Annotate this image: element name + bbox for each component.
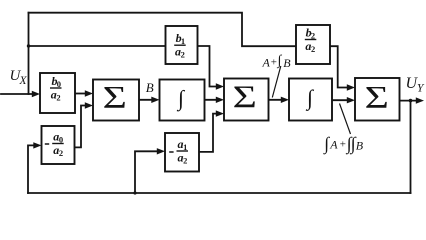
integrator I2 (289, 79, 332, 121)
integrator I1 (160, 80, 205, 121)
node junction U_X branch (27, 44, 30, 47)
node junction U_Y branch (409, 99, 413, 103)
wire b0/a2 output to summer S1 (75, 93, 88, 95)
wire -a0/a2 output to summer S1 (75, 106, 89, 148)
wire b1/a2 output to summer S2 (198, 46, 220, 87)
wire summer S1 to integrator I1 (139, 99, 155, 101)
svg-text:X: X (19, 75, 28, 87)
wire top feedforward to b2/a2 (29, 13, 297, 47)
label fraction -a1/a2 (169, 137, 188, 166)
wire feedback to -a1/a2 (135, 151, 160, 193)
svg-text:∫: ∫ (277, 53, 283, 68)
svg-text:∫: ∫ (323, 133, 330, 154)
wire summer S2 to integrator I2 (269, 99, 285, 101)
wire -a1/a2 output to summer S2 (199, 114, 219, 152)
label sigma S2 (233, 80, 257, 115)
wire integrator I1 to summer S2 (205, 99, 220, 101)
label fraction b0/a2 (50, 74, 62, 103)
svg-text:2: 2 (183, 156, 187, 166)
leader line for integral A + double integral B (340, 104, 351, 135)
arrowhead into I2 (281, 97, 289, 103)
label fraction -a0/a2 (45, 129, 64, 158)
wire feedback bottom line (28, 192, 411, 194)
block -a0/a2 (42, 126, 75, 164)
label fraction b2/a2 (305, 25, 317, 54)
svg-text:Σ: Σ (365, 81, 389, 116)
svg-text:2: 2 (181, 50, 185, 60)
svg-text:Y: Y (417, 83, 425, 95)
svg-text:+: + (340, 139, 346, 151)
label node integral A + double integral B (323, 133, 364, 154)
wire integrator I2 to summer S3 (332, 99, 350, 101)
svg-text:2: 2 (56, 93, 60, 103)
summer S1 (93, 80, 139, 121)
svg-text:2: 2 (311, 44, 315, 54)
svg-text:A: A (262, 56, 271, 70)
summer S2 (224, 79, 269, 121)
arrowhead into S2 bottom input (216, 110, 224, 116)
label sigma S3 (365, 81, 389, 116)
block -a1/a2 (165, 133, 199, 172)
node junction bottom feedback (133, 191, 136, 194)
svg-text:Σ: Σ (103, 81, 127, 116)
summer S3 (355, 78, 400, 121)
wire feedback drop right (410, 101, 412, 193)
arrowhead into S2 top input (216, 83, 224, 89)
wire U_X input (1, 93, 36, 95)
svg-text:B: B (356, 138, 364, 152)
label sigma S1 (103, 81, 127, 116)
svg-text:+: + (271, 57, 277, 69)
svg-text:Σ: Σ (233, 80, 257, 115)
wire feedback to -a0/a2 (28, 145, 37, 193)
svg-text:B: B (283, 56, 291, 70)
block b0/a2 (40, 73, 75, 113)
wire second feedforward to b1/a2 (29, 45, 166, 47)
wire U_Y output (400, 100, 418, 102)
arrowhead into S1 top input (85, 90, 93, 96)
arrowhead into -a1/a2 (157, 148, 165, 154)
leader line for A+integral B (272, 66, 281, 98)
arrowhead into -a0/a2 (33, 142, 41, 148)
arrowhead into S3 mid input (347, 97, 355, 103)
block b2/a2 (296, 25, 330, 64)
label fraction b1/a2 (174, 31, 186, 60)
label node A+integral B (262, 53, 292, 70)
svg-text:B: B (146, 80, 154, 95)
block b1/a2 (166, 26, 198, 64)
arrowhead into S1 bottom input (85, 102, 93, 108)
svg-text:A: A (329, 138, 338, 152)
arrowhead into b0/a2 (32, 91, 40, 97)
svg-text:2: 2 (59, 148, 63, 158)
arrowhead into S2 mid input (216, 97, 224, 103)
arrowhead into S3 top input (347, 84, 355, 90)
wire U_X branch up (28, 13, 30, 94)
wire b2/a2 output to summer S3 (330, 46, 350, 87)
arrowhead into I1 (151, 97, 159, 103)
arrowhead U_Y output (416, 97, 424, 103)
